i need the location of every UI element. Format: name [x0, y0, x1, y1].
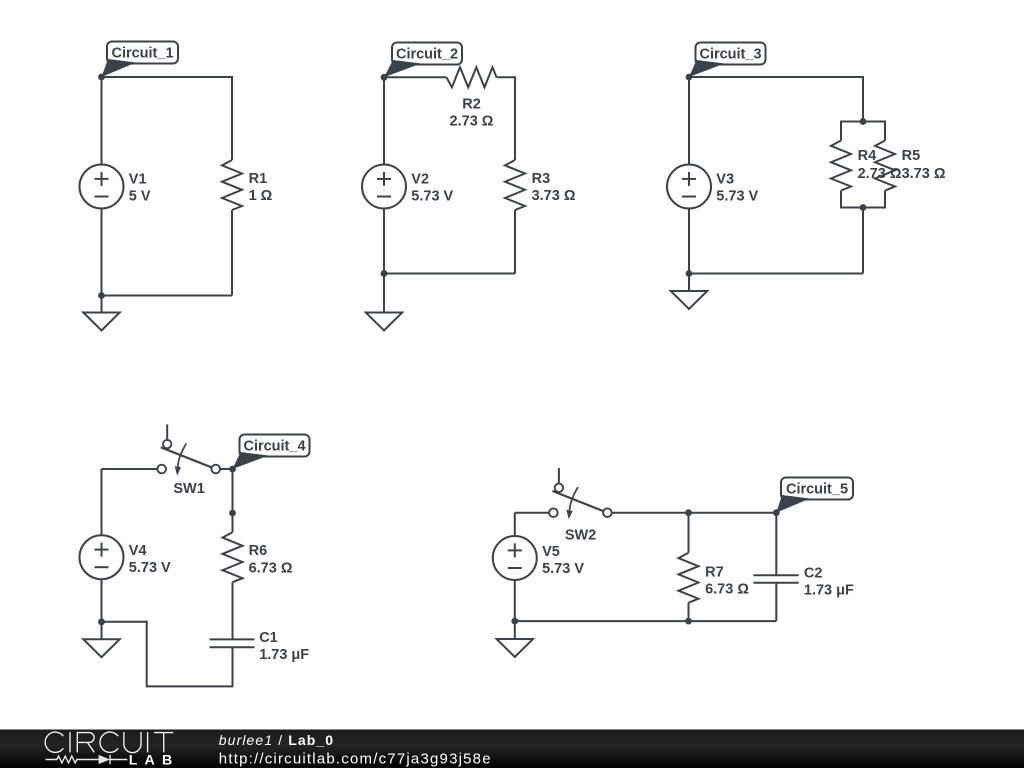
svg-text:R6: R6 — [249, 543, 268, 559]
wire C2 bottom lead — [775, 583, 777, 621]
svg-text:SW1: SW1 — [173, 481, 204, 497]
footer bar — [0, 730, 1024, 768]
callout Circuit_5 — [776, 478, 853, 513]
svg-text:V5: V5 — [542, 544, 560, 560]
voltage source V5 — [493, 536, 537, 580]
wire parallel bottom bracket — [841, 207, 885, 209]
svg-text:R5: R5 — [902, 148, 921, 164]
resistor R4 — [831, 141, 851, 191]
wire Circuit_1 top — [102, 76, 233, 78]
resistor R6 — [223, 532, 243, 582]
wire C2 top lead — [775, 513, 777, 576]
node N8 bottom-left of Circuit_3 — [686, 270, 693, 277]
svg-text:LAB: LAB — [129, 753, 180, 768]
svg-text:1.73 μF: 1.73 μF — [804, 583, 854, 599]
svg-text:V3: V3 — [716, 172, 734, 188]
footer url — [219, 751, 492, 768]
switch SW2 blade — [553, 491, 604, 511]
wire R7 bottom lead — [688, 603, 690, 621]
wire Circuit_5 top left — [515, 512, 550, 514]
ground Circuit_1 — [83, 313, 119, 331]
wire Circuit_2 right upper — [514, 76, 516, 160]
resistor R3 labels — [532, 171, 576, 204]
switch SW1 right terminal — [211, 465, 220, 474]
svg-text:C2: C2 — [804, 566, 823, 582]
ground Circuit_2 — [366, 313, 402, 331]
ground Circuit_4 — [83, 639, 119, 657]
wire Circuit_4 left lower — [101, 579, 103, 622]
voltage source V5 labels — [542, 544, 584, 577]
wire Circuit_1 bottom — [102, 295, 233, 297]
wire Circuit_3 right upper — [862, 76, 864, 122]
resistor R5 — [875, 141, 895, 191]
wire Circuit_2 left lower — [383, 209, 385, 274]
wire Circuit_1 right lower — [231, 210, 233, 296]
wire Circuit_5 bottom right — [689, 620, 777, 622]
node N13 Circuit_5 C2 top — [773, 509, 780, 516]
svg-text:5.73 V: 5.73 V — [716, 189, 758, 205]
svg-text:1 Ω: 1 Ω — [249, 188, 273, 204]
wire Circuit_2 bottom — [384, 273, 515, 275]
node N4 bottom-left of Circuit_2 — [381, 270, 388, 277]
resistor R6 labels — [249, 543, 293, 576]
resistor R3 — [505, 160, 525, 210]
callout Circuit_2 — [384, 43, 462, 78]
wire Circuit_1 right upper — [231, 76, 233, 160]
wire Circuit_2 top right segment — [497, 76, 516, 78]
switch SW2 label — [565, 527, 596, 543]
svg-text:1.73 μF: 1.73 μF — [259, 647, 309, 663]
voltage source V3 — [667, 165, 711, 209]
switch SW2 actuator arrow — [566, 487, 578, 519]
svg-text:Circuit_1: Circuit_1 — [111, 46, 173, 62]
svg-text:V2: V2 — [411, 172, 429, 188]
switch SW1 actuator arrow — [175, 443, 187, 475]
svg-text:burlee1 / Lab_0: burlee1 / Lab_0 — [219, 732, 334, 748]
resistor R2 labels — [450, 97, 494, 130]
svg-text:Circuit_2: Circuit_2 — [396, 47, 458, 63]
svg-text:C1: C1 — [259, 630, 278, 646]
wire Circuit_2 top left segment — [384, 76, 447, 78]
wire junction to R6 — [232, 513, 234, 532]
capacitor C2 labels — [804, 566, 854, 599]
wire Circuit_3 left upper — [688, 77, 690, 165]
svg-text:R3: R3 — [532, 171, 551, 187]
wire Circuit_2 left upper — [383, 77, 385, 164]
switch SW2 top throw stub — [558, 468, 560, 483]
voltage source V3 labels — [716, 172, 758, 205]
CircuitLab logo resistor-diode squiggle — [46, 755, 128, 764]
wire R4 bottom lead — [840, 191, 842, 209]
voltage source V2 — [362, 165, 406, 209]
wire Circuit_4 ground link — [102, 621, 148, 623]
resistor R7 labels — [705, 565, 749, 598]
svg-text:5.73 V: 5.73 V — [129, 560, 171, 576]
svg-text:R7: R7 — [705, 565, 724, 581]
wire Circuit_5 bottom left — [515, 620, 689, 622]
wire Circuit_4 down to junction — [232, 469, 234, 513]
wire Circuit_1 left upper — [101, 77, 103, 165]
switch SW2 top terminal — [555, 484, 563, 492]
svg-text:6.73 Ω: 6.73 Ω — [705, 582, 749, 598]
wire Circuit_3 bottom — [689, 273, 863, 275]
wire Circuit_2 right lower — [514, 210, 516, 274]
node N7 parallel bottom — [860, 204, 867, 211]
wire Circuit_3 left lower — [688, 209, 690, 274]
node N1 top-left of Circuit_1 — [98, 74, 105, 81]
node N6 parallel top — [860, 118, 867, 125]
wire R6 to C1 — [232, 582, 234, 639]
wire Circuit_3 top — [689, 76, 863, 78]
node N2 bottom-left of Circuit_1 — [98, 292, 105, 299]
footer title burlee1 / Lab_0 — [219, 732, 334, 748]
wire Circuit_5 left lower — [514, 580, 516, 621]
CircuitLab logo word LAB — [129, 753, 180, 768]
svg-text:http://circuitlab.com/c77ja3g9: http://circuitlab.com/c77ja3g93j58e — [219, 751, 492, 768]
svg-text:6.73 Ω: 6.73 Ω — [249, 560, 293, 576]
resistor R7 — [679, 553, 699, 603]
CircuitLab logo word CIRCUIT — [45, 732, 173, 753]
svg-text:3.73 Ω: 3.73 Ω — [532, 188, 576, 204]
wire Circuit_4 bottom riser — [146, 621, 148, 688]
resistor R1 labels — [249, 171, 273, 204]
voltage source V1 — [80, 165, 124, 209]
node N10 Circuit_4 mid junction — [229, 510, 236, 517]
wire Circuit_4 left upper — [101, 469, 103, 535]
capacitor C1 labels — [259, 630, 309, 663]
wire Circuit_1 left lower — [101, 209, 103, 296]
node N5 top-left of Circuit_3 — [686, 74, 693, 81]
wire Circuit_4 bottom — [147, 685, 234, 687]
callout Circuit_1 — [102, 42, 179, 78]
wire SW2 to R7 node — [611, 512, 688, 514]
ground Circuit_5 — [497, 639, 533, 657]
wire Circuit_3 ground stub — [688, 274, 690, 292]
voltage source V4 labels — [129, 543, 171, 576]
switch SW1 left terminal — [157, 465, 166, 474]
svg-text:V4: V4 — [129, 543, 147, 559]
switch SW1 top throw stub — [166, 424, 168, 439]
resistor R4 labels — [858, 148, 902, 182]
resistor R2 — [447, 67, 497, 87]
wire R7 top lead — [688, 513, 690, 553]
voltage source V2 labels — [411, 172, 453, 205]
svg-text:5.73 V: 5.73 V — [411, 189, 453, 205]
wire Circuit_3 right lower — [862, 208, 864, 274]
svg-text:V1: V1 — [129, 172, 147, 188]
wire Circuit_4 ground stub — [101, 622, 103, 639]
svg-text:Circuit_5: Circuit_5 — [786, 482, 848, 498]
wire Circuit_4 top left — [102, 468, 158, 470]
wire R4 top lead — [840, 121, 842, 141]
voltage source V1 labels — [129, 172, 151, 205]
resistor R1 — [222, 160, 242, 210]
node N14 Circuit_5 R7 bottom — [685, 618, 692, 625]
svg-text:2.73 Ω: 2.73 Ω — [450, 114, 494, 130]
callout Circuit_3 — [689, 43, 766, 78]
svg-text:5.73 V: 5.73 V — [542, 561, 584, 577]
svg-text:R1: R1 — [249, 171, 268, 187]
wire SW1 to node — [220, 468, 233, 470]
switch SW1 blade — [161, 447, 212, 467]
wire Circuit_5 left upper — [514, 513, 516, 536]
ground Circuit_3 — [671, 291, 707, 309]
wire R5 top lead — [884, 121, 886, 141]
svg-text:SW2: SW2 — [565, 527, 596, 543]
resistor R5 labels — [902, 148, 946, 182]
svg-text:3.73 Ω: 3.73 Ω — [902, 166, 946, 182]
wire R5 bottom lead — [884, 191, 886, 209]
svg-text:R2: R2 — [462, 97, 481, 113]
node N11 Circuit_4 ground node — [98, 618, 105, 625]
voltage source V4 — [80, 535, 124, 579]
node N9 Circuit_4 switch output — [229, 466, 236, 473]
switch SW1 top terminal — [163, 440, 171, 448]
node N15 Circuit_5 ground node — [511, 618, 518, 625]
svg-text:Circuit_4: Circuit_4 — [243, 439, 305, 455]
switch SW2 right terminal — [603, 508, 612, 517]
svg-text:5 V: 5 V — [129, 189, 151, 205]
node N12 Circuit_5 R7 top — [685, 509, 692, 516]
wire Circuit_2 ground stub — [383, 274, 385, 313]
node N3 top-left of Circuit_2 — [381, 74, 388, 81]
wire Circuit_5 ground stub — [514, 621, 516, 639]
wire Circuit_1 ground stub — [101, 296, 103, 313]
wire R7 node to C2 node — [689, 512, 777, 514]
wire C1 bottom lead — [232, 647, 234, 686]
wire parallel top bracket — [841, 121, 885, 123]
callout Circuit_4 — [233, 435, 310, 470]
switch SW1 label — [173, 481, 204, 497]
svg-text:Circuit_3: Circuit_3 — [699, 47, 761, 63]
capacitor C1 — [210, 639, 255, 647]
switch SW2 left terminal — [549, 508, 558, 517]
capacitor C2 — [753, 575, 798, 583]
